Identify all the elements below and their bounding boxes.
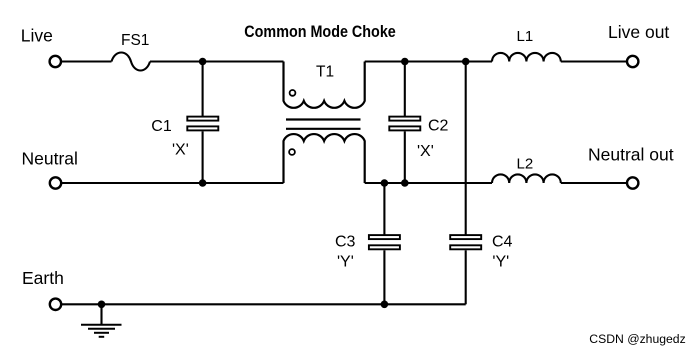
wire C4 branch lower: [465, 250, 467, 304]
svg-text:C2: C2: [428, 118, 449, 135]
terminal Earth: [50, 299, 61, 310]
wire L1 to Live out: [561, 60, 627, 62]
ground: [81, 304, 122, 337]
node junction Live/C1: [199, 58, 207, 66]
capacitor C4: [450, 235, 481, 249]
node junction Earth/ground: [98, 301, 106, 309]
wire T1 top to L1: [365, 60, 492, 62]
wire Earth rail: [62, 303, 466, 305]
svg-text:L1: L1: [517, 28, 534, 45]
wire fuse to T1 top: [150, 60, 284, 62]
node junction Live/C2: [401, 58, 409, 66]
svg-text:'Y': 'Y': [492, 254, 509, 271]
capacitor C2: [389, 117, 420, 131]
fuse FS1: [112, 53, 151, 71]
terminal Live out: [627, 56, 638, 67]
svg-text:Neutral: Neutral: [22, 149, 78, 169]
capacitor C3: [369, 235, 400, 249]
svg-text:L2: L2: [517, 156, 534, 173]
wire C1 branch lower: [202, 131, 204, 183]
svg-text:Common Mode Choke: Common Mode Choke: [244, 22, 395, 41]
wire C2 branch lower: [404, 131, 406, 183]
node junction Neutral/C3: [381, 179, 389, 187]
terminal Neutral out: [627, 177, 638, 188]
svg-text:CSDN @zhugedz: CSDN @zhugedz: [589, 332, 685, 346]
wire L2 to Neutral out: [561, 182, 627, 184]
wire C1 branch upper: [202, 62, 204, 117]
terminal Live in: [50, 56, 61, 67]
node junction Live/C4: [462, 58, 470, 66]
svg-text:C3: C3: [335, 233, 356, 250]
wire C2 branch upper: [404, 62, 406, 117]
wire C3 branch lower: [383, 250, 385, 304]
wire Neutral terminal to T1: [62, 182, 284, 184]
svg-text:Live: Live: [21, 25, 53, 45]
inductor L1: [492, 53, 561, 62]
node junction Neutral/C2: [401, 179, 409, 187]
svg-text:T1: T1: [316, 64, 334, 81]
transformer T1 bottom winding: [284, 134, 365, 183]
svg-text:Live out: Live out: [608, 22, 669, 42]
capacitor C1: [187, 117, 218, 131]
inductor L2: [492, 174, 561, 183]
terminal Neutral in: [50, 177, 61, 188]
wire Live terminal to fuse: [62, 60, 112, 62]
transformer T1 top winding: [284, 62, 365, 108]
svg-text:'Y': 'Y': [337, 254, 354, 271]
transformer T1 bottom phase dot: [289, 149, 295, 155]
svg-text:'X': 'X': [172, 142, 189, 159]
svg-text:C4: C4: [492, 233, 513, 250]
transformer T1 top phase dot: [290, 90, 296, 96]
transformer T1 core: [286, 120, 361, 129]
svg-text:C1: C1: [151, 118, 172, 135]
svg-text:'X': 'X': [417, 143, 434, 160]
wire T1 bottom to L2: [365, 182, 492, 184]
svg-text:Neutral out: Neutral out: [588, 145, 674, 165]
node junction Neutral/C1: [199, 179, 207, 187]
wire C4 branch upper: [465, 62, 467, 236]
node junction Earth/C3: [381, 301, 389, 309]
svg-text:FS1: FS1: [121, 32, 149, 49]
svg-text:Earth: Earth: [22, 268, 64, 288]
wire C3 branch upper: [383, 183, 385, 235]
